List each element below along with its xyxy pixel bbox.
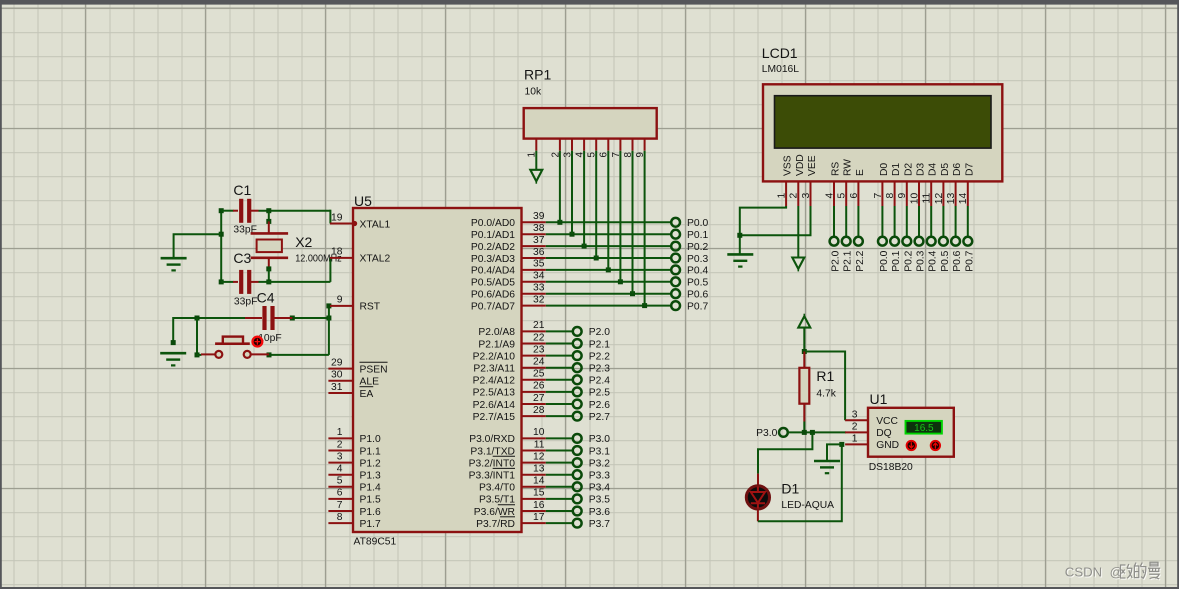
U1 pin 1 GND — [845, 433, 899, 451]
svg-text:P0.5: P0.5 — [687, 278, 708, 289]
wire: LCD VEE to ground rail — [737, 206, 810, 238]
U1 pin 2 DQ — [845, 421, 892, 439]
U5 pin 23 P2.2/A10 with wire and terminal P2.2 — [473, 344, 611, 362]
U5 left pin 19 XTAL1 — [330, 212, 390, 230]
svg-text:P3.1: P3.1 — [589, 446, 610, 457]
svg-text:1: 1 — [777, 193, 788, 199]
capacitor C3 — [221, 250, 258, 308]
svg-text:8: 8 — [885, 193, 896, 199]
svg-text:X2: X2 — [295, 234, 312, 250]
RP1 pin 3 wire to P0.1 — [562, 139, 573, 235]
ground (reset section) — [160, 340, 186, 365]
svg-text:P0.7/AD7: P0.7/AD7 — [471, 301, 515, 312]
LCD pin 5 RW — [837, 159, 854, 206]
ground (LCD) — [727, 254, 753, 266]
IC U5 AT89C51 microcontroller body — [353, 193, 522, 548]
terminal P0.3 under LCD — [915, 206, 927, 272]
svg-text:21: 21 — [533, 320, 545, 331]
svg-text:28: 28 — [533, 405, 545, 416]
terminal P2.2 under LCD — [854, 206, 866, 272]
LCD pin 11 D4 — [922, 163, 939, 206]
svg-text:18: 18 — [331, 247, 343, 258]
LCD pin 10 D3 — [909, 163, 926, 206]
RP1 pin 9 wire to P0.7 — [635, 139, 646, 306]
LCD pin 12 D5 — [934, 163, 951, 206]
svg-text:4: 4 — [337, 464, 343, 475]
LCD pin 14 D7 — [958, 163, 975, 206]
svg-text:P0.4: P0.4 — [928, 250, 939, 271]
svg-text:P1.2: P1.2 — [360, 458, 381, 469]
svg-text:7: 7 — [873, 193, 884, 199]
svg-text:VSS: VSS — [783, 155, 794, 176]
svg-text:U5: U5 — [354, 193, 372, 209]
RP1 pin 5 wire to P0.3 — [587, 139, 598, 258]
svg-text:P2.4/A12: P2.4/A12 — [473, 376, 516, 387]
svg-text:4.7k: 4.7k — [816, 388, 836, 399]
U5 pin 22 P2.1/A9 with wire and terminal P2.1 — [478, 332, 610, 350]
LED D1 LED-AQUA — [746, 474, 834, 522]
svg-text:D2: D2 — [903, 163, 914, 176]
wire: reset RC net — [173, 303, 331, 357]
svg-text:7: 7 — [337, 500, 343, 511]
wire + ground (U1 GND) — [814, 444, 842, 473]
U5 left pin 9 RST — [330, 295, 381, 313]
svg-text:D6: D6 — [952, 163, 963, 176]
terminal P0.2 under LCD — [902, 206, 914, 272]
svg-text:ALE: ALE — [360, 377, 380, 388]
reset button indicator (red) — [253, 337, 263, 347]
svg-text:P0.4: P0.4 — [687, 266, 708, 277]
svg-text:P1.4: P1.4 — [360, 483, 381, 494]
wire: LED cathode to U1 GND — [758, 442, 844, 521]
reset pushbutton — [201, 337, 269, 358]
LCD pin 2 VDD — [789, 154, 806, 206]
LCD pin 4 RS — [824, 162, 841, 206]
svg-text:P3.1/TXD: P3.1/TXD — [470, 446, 515, 457]
terminal P0.7 under LCD — [963, 206, 975, 272]
svg-text:22: 22 — [533, 332, 545, 343]
U5 pin 35 P0.4/AD4 with wire and terminal P0.4 — [471, 259, 709, 277]
svg-text:31: 31 — [331, 382, 343, 393]
svg-text:P2.7: P2.7 — [589, 412, 610, 423]
capacitor C1 — [221, 182, 258, 236]
svg-text:1: 1 — [337, 427, 343, 438]
svg-text:P0.0: P0.0 — [879, 250, 890, 271]
svg-text:5: 5 — [337, 476, 343, 487]
svg-text:36: 36 — [533, 247, 545, 258]
U5 left pin 7 P1.6 — [328, 500, 381, 518]
svg-text:10: 10 — [533, 427, 545, 438]
svg-text:R1: R1 — [816, 368, 834, 384]
svg-text:P3.4/T0: P3.4/T0 — [479, 483, 515, 494]
svg-text:P3.4: P3.4 — [589, 483, 610, 494]
U5 pin 28 P2.7/A15 with wire and terminal P2.7 — [473, 405, 611, 423]
LCD pin 13 D6 — [946, 163, 963, 206]
U5 left pin 4 P1.3 — [328, 464, 381, 482]
terminal P0.1 under LCD — [890, 206, 902, 272]
svg-text:P3.0: P3.0 — [756, 428, 777, 439]
svg-text:P0.7: P0.7 — [687, 301, 708, 312]
U5 left pin 3 P1.2 — [328, 451, 381, 469]
svg-text:PSEN: PSEN — [360, 364, 388, 375]
svg-text:P1.6: P1.6 — [360, 507, 381, 518]
U5 pin 10 P3.0/RXD with wire and terminal P3.0 — [469, 427, 610, 445]
svg-text:D4: D4 — [928, 163, 939, 176]
svg-text:P0.0: P0.0 — [687, 218, 708, 229]
U5 pin 27 P2.6/A14 with wire and terminal P2.6 — [473, 393, 611, 411]
U5 left pin 1 P1.0 — [328, 427, 381, 445]
svg-text:P0.1: P0.1 — [891, 250, 902, 271]
U5 pin 16 P3.6/WR with wire and terminal P3.6 — [474, 500, 610, 518]
svg-text:VCC: VCC — [876, 416, 898, 427]
svg-text:37: 37 — [533, 235, 545, 246]
resistor pack RP1 body — [524, 67, 657, 139]
svg-text:13: 13 — [533, 464, 545, 475]
RP1 pin 4 wire to P0.2 — [575, 139, 586, 247]
terminal P0.4 under LCD — [927, 206, 939, 272]
svg-text:P0.2/AD2: P0.2/AD2 — [471, 242, 515, 253]
svg-text:RST: RST — [360, 302, 381, 313]
LCD pin 6 E — [849, 169, 866, 206]
svg-text:P2.2/A10: P2.2/A10 — [473, 351, 516, 362]
svg-text:35: 35 — [533, 259, 545, 270]
svg-text:2: 2 — [789, 193, 800, 199]
crystal X2 — [251, 211, 342, 285]
svg-text:10: 10 — [909, 193, 920, 205]
U5 left pin 30 ALE — [328, 370, 379, 388]
svg-text:12: 12 — [533, 451, 545, 462]
U5 pin 11 P3.1/TXD with wire and terminal P3.1 — [470, 439, 610, 457]
RP1 pin 6 wire to P0.4 — [599, 139, 610, 270]
svg-text:P3.2: P3.2 — [589, 458, 610, 469]
U5 pin 32 P0.7/AD7 with wire and terminal P0.7 — [471, 294, 709, 312]
svg-text:1: 1 — [852, 433, 858, 444]
svg-text:26: 26 — [533, 381, 545, 392]
svg-text:C4: C4 — [257, 289, 275, 305]
svg-text:AT89C51: AT89C51 — [354, 537, 397, 548]
U5 left pin 6 P1.5 — [328, 488, 381, 506]
svg-text:C3: C3 — [233, 250, 251, 266]
U1 temperature display 16.5 — [906, 421, 942, 434]
svg-text:8: 8 — [337, 512, 343, 523]
LCD LCD1 LM016L body — [762, 45, 1003, 181]
svg-text:24: 24 — [533, 357, 545, 368]
svg-text:P2.3/A11: P2.3/A11 — [473, 364, 515, 375]
svg-text:P2.0: P2.0 — [831, 250, 842, 271]
svg-text:P2.4: P2.4 — [589, 376, 610, 387]
svg-text:P2.1: P2.1 — [843, 250, 854, 271]
svg-text:P3.0/RXD: P3.0/RXD — [469, 434, 515, 445]
power terminal (VCC above R1) — [798, 314, 810, 352]
svg-text:4: 4 — [824, 193, 835, 199]
svg-text:3: 3 — [801, 193, 812, 199]
svg-text:3: 3 — [852, 409, 858, 420]
U5 pin 15 P3.5/T1 with wire and terminal P3.5 — [479, 488, 610, 506]
LCD pin 9 D2 — [897, 163, 914, 206]
svg-text:P0.0/AD0: P0.0/AD0 — [471, 218, 515, 229]
svg-text:15: 15 — [533, 488, 545, 499]
svg-text:VEE: VEE — [807, 155, 818, 176]
svg-text:P3.7/RD: P3.7/RD — [476, 519, 515, 530]
svg-text:33: 33 — [533, 283, 545, 294]
wire: DQ node down to LED D1 — [758, 432, 812, 473]
svg-text:E: E — [855, 169, 866, 176]
svg-text:P0.3: P0.3 — [916, 250, 927, 271]
terminal P3.0 — [756, 428, 788, 439]
svg-text:C1: C1 — [233, 182, 251, 198]
svg-text:P2.1/A9: P2.1/A9 — [478, 339, 515, 350]
svg-text:P2.7/A15: P2.7/A15 — [473, 412, 516, 423]
resistor R1 4.7k — [799, 352, 836, 433]
svg-text:10k: 10k — [525, 87, 542, 98]
RP1 pin 7 wire to P0.5 — [611, 139, 622, 282]
wire: LCD VSS to ground — [740, 206, 786, 254]
ground (crystal section) — [161, 258, 187, 270]
U5 pin 26 P2.5/A13 with wire and terminal P2.5 — [473, 381, 611, 399]
svg-text:RS: RS — [831, 162, 842, 176]
U5 left pin 18 XTAL2 — [330, 247, 390, 265]
svg-text:17: 17 — [533, 512, 545, 523]
U1 up button — [931, 441, 940, 450]
svg-text:P3.0: P3.0 — [589, 434, 610, 445]
svg-text:P1.0: P1.0 — [360, 434, 381, 445]
terminal P0.5 under LCD — [939, 206, 951, 272]
wire: rail to ground — [174, 234, 222, 258]
U5 pin 24 P2.3/A11 with wire and terminal P2.3 — [473, 357, 610, 375]
LCD pin 3 VEE — [801, 155, 818, 206]
svg-text:P2.2: P2.2 — [589, 351, 610, 362]
svg-text:D5: D5 — [940, 163, 951, 176]
svg-text:P0.2: P0.2 — [687, 242, 708, 253]
svg-text:5: 5 — [837, 193, 848, 199]
svg-text:16.5: 16.5 — [914, 423, 934, 434]
svg-text:23: 23 — [533, 344, 545, 355]
svg-text:39: 39 — [533, 211, 545, 222]
terminal P2.1 under LCD — [842, 206, 854, 272]
U5 left pin 5 P1.4 — [328, 476, 381, 494]
svg-text:P0.6/AD6: P0.6/AD6 — [471, 290, 515, 301]
U5 pin 13 P3.3/INT1 with wire and terminal P3.3 — [469, 464, 611, 482]
IC U1 DS18B20 temperature sensor body — [868, 391, 954, 473]
svg-text:2: 2 — [852, 421, 858, 432]
wire: C3/crystal to XTAL2 — [259, 258, 331, 282]
U5 pin 34 P0.5/AD5 with wire and terminal P0.5 — [471, 271, 709, 289]
svg-text:DQ: DQ — [876, 428, 891, 439]
svg-text:P0.1: P0.1 — [687, 230, 708, 241]
svg-text:14: 14 — [958, 193, 969, 205]
svg-text:XTAL2: XTAL2 — [360, 254, 391, 265]
svg-text:XTAL1: XTAL1 — [360, 219, 391, 230]
svg-text:9: 9 — [337, 295, 343, 306]
svg-text:P2.6: P2.6 — [589, 400, 610, 411]
svg-text:P2.1: P2.1 — [589, 339, 610, 350]
U5 left pin 2 P1.1 — [328, 439, 381, 457]
svg-text:2: 2 — [337, 439, 343, 450]
svg-text:P0.3: P0.3 — [687, 254, 708, 265]
svg-text:P0.2: P0.2 — [903, 250, 914, 271]
svg-text:VDD: VDD — [795, 154, 806, 176]
wire: C1 to XTAL1 — [259, 208, 331, 223]
svg-text:RP1: RP1 — [524, 67, 551, 83]
svg-text:P0.6: P0.6 — [687, 290, 708, 301]
svg-text:P3.6: P3.6 — [589, 507, 610, 518]
U5 left pin 31 EA — [328, 382, 373, 400]
U5 pin 36 P0.3/AD3 with wire and terminal P0.3 — [471, 247, 709, 265]
U5 pin 25 P2.4/A12 with wire and terminal P2.4 — [473, 369, 611, 387]
svg-text:D1: D1 — [781, 480, 799, 496]
U5 pin 39 P0.0/AD0 with wire and terminal P0.0 — [471, 211, 709, 229]
watermark CSDN — [1065, 562, 1160, 579]
svg-text:32: 32 — [533, 294, 545, 305]
LCD pin 8 D1 — [885, 163, 902, 206]
svg-text:38: 38 — [533, 223, 545, 234]
svg-text:33pF: 33pF — [234, 297, 257, 308]
svg-text:13: 13 — [946, 193, 957, 205]
svg-text:P1.5: P1.5 — [360, 495, 381, 506]
U1 pin 3 VCC — [845, 409, 898, 427]
svg-text:P2.3: P2.3 — [589, 364, 610, 375]
U5 left pin 29 PSEN — [328, 357, 387, 375]
svg-text:3: 3 — [337, 451, 343, 462]
svg-text:P3.6/WR: P3.6/WR — [474, 507, 515, 518]
svg-text:25: 25 — [533, 369, 545, 380]
svg-text:GND: GND — [876, 440, 899, 451]
svg-text:P3.3: P3.3 — [589, 471, 610, 482]
svg-text:11: 11 — [922, 193, 933, 204]
U5 pin 21 P2.0/A8 with wire and terminal P2.0 — [478, 320, 610, 338]
XTAL1 pin marker — [352, 221, 357, 226]
svg-text:P1.7: P1.7 — [360, 519, 381, 530]
svg-text:27: 27 — [533, 393, 545, 404]
svg-text:11: 11 — [534, 439, 545, 450]
U5 pin 33 P0.6/AD6 with wire and terminal P0.6 — [471, 283, 709, 301]
LCD pin 7 D0 — [873, 163, 890, 206]
svg-text:6: 6 — [849, 193, 860, 199]
RP1 pin 2 wire to P0.0 — [550, 139, 561, 223]
U5 pin 14 P3.4/T0 with wire and terminal P3.4 — [479, 476, 610, 494]
svg-text:16: 16 — [533, 500, 545, 511]
svg-text:14: 14 — [533, 476, 545, 487]
svg-text:30: 30 — [331, 370, 343, 381]
wire: P3.0 to U1 DQ — [788, 430, 846, 435]
wire: left rail joining C1/C3 — [219, 208, 224, 284]
svg-text:P1.3: P1.3 — [360, 471, 381, 482]
svg-text:P3.5: P3.5 — [589, 495, 610, 506]
wire: VCC node to U1 VCC — [802, 349, 845, 420]
svg-text:P3.3/INT1: P3.3/INT1 — [469, 471, 516, 482]
terminal P0.0 under LCD — [878, 206, 890, 272]
svg-text:U1: U1 — [870, 391, 888, 407]
svg-text:LED-AQUA: LED-AQUA — [781, 500, 834, 511]
svg-text:DS18B20: DS18B20 — [869, 462, 913, 473]
svg-text:P0.3/AD3: P0.3/AD3 — [471, 254, 515, 265]
svg-text:P0.5/AD5: P0.5/AD5 — [471, 278, 515, 289]
svg-text:D0: D0 — [879, 163, 890, 176]
svg-text:P0.6: P0.6 — [952, 250, 963, 271]
svg-text:29: 29 — [331, 357, 343, 368]
svg-text:CSDN: CSDN — [1065, 564, 1102, 579]
svg-text:12: 12 — [934, 193, 945, 205]
terminal P0.6 under LCD — [951, 206, 963, 272]
svg-text:P3.5/T1: P3.5/T1 — [479, 495, 515, 506]
U5 pin 17 P3.7/RD with wire and terminal P3.7 — [476, 512, 610, 530]
power terminal (LCD VDD) — [792, 206, 804, 271]
svg-text:D1: D1 — [891, 163, 902, 176]
svg-text:P0.7: P0.7 — [964, 250, 975, 271]
svg-text:34: 34 — [533, 271, 545, 282]
svg-text:P3.7: P3.7 — [589, 519, 610, 530]
terminal P2.0 under LCD — [830, 206, 842, 272]
svg-text:P1.1: P1.1 — [360, 446, 381, 457]
U5 pin 37 P0.2/AD2 with wire and terminal P0.2 — [471, 235, 709, 253]
U5 pin 12 P3.2/INT0 with wire and terminal P3.2 — [469, 451, 611, 469]
svg-text:P3.2/INT0: P3.2/INT0 — [469, 458, 516, 469]
RP1 pin 8 wire to P0.6 — [623, 139, 634, 294]
svg-text:EA: EA — [360, 389, 374, 400]
svg-text:P2.2: P2.2 — [855, 250, 866, 271]
svg-text:P0.4/AD4: P0.4/AD4 — [471, 266, 515, 277]
svg-text:P2.0: P2.0 — [589, 327, 610, 338]
svg-text:D7: D7 — [964, 163, 975, 176]
svg-text:9: 9 — [897, 193, 908, 199]
svg-text:P2.0/A8: P2.0/A8 — [478, 327, 515, 338]
svg-text:LM016L: LM016L — [762, 64, 799, 75]
svg-text:P2.6/A14: P2.6/A14 — [473, 400, 516, 411]
capacitor C4 — [245, 289, 292, 344]
svg-text:19: 19 — [331, 212, 343, 223]
svg-text:P0.1/AD1: P0.1/AD1 — [471, 230, 515, 241]
U1 down button — [907, 441, 916, 450]
LCD pin 1 VSS — [777, 155, 794, 206]
svg-text:P2.5: P2.5 — [589, 388, 610, 399]
U5 left pin 8 P1.7 — [328, 512, 381, 530]
svg-text:LCD1: LCD1 — [762, 45, 798, 61]
svg-text:RW: RW — [843, 159, 854, 176]
svg-text:P2.5/A13: P2.5/A13 — [473, 388, 516, 399]
svg-text:6: 6 — [337, 488, 343, 499]
RP1 pin 1 with power-down terminal — [527, 139, 543, 184]
svg-text:P0.5: P0.5 — [940, 250, 951, 271]
U5 pin 38 P0.1/AD1 with wire and terminal P0.1 — [471, 223, 709, 241]
svg-text:D3: D3 — [916, 163, 927, 176]
